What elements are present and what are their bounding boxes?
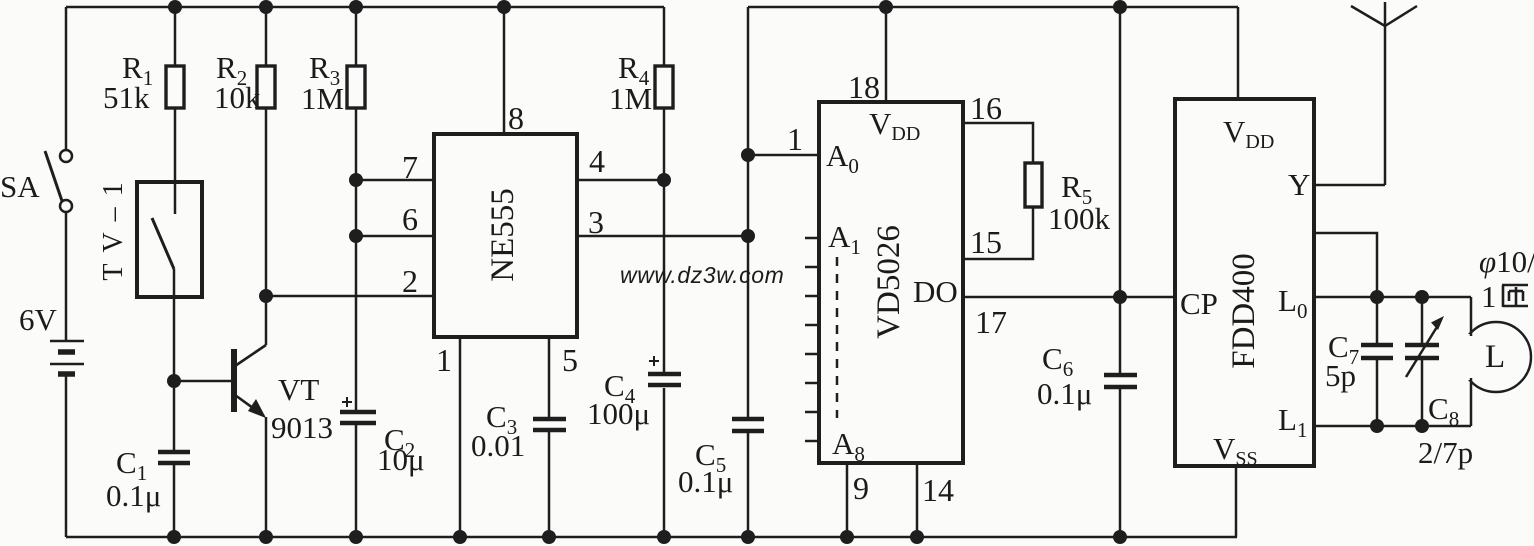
svg-text:100μ: 100μ <box>587 396 650 431</box>
svg-text:www.dz3w.com: www.dz3w.com <box>620 262 784 288</box>
node pin4 / R4 <box>657 173 671 187</box>
svg-text:FDD400: FDD400 <box>1226 253 1262 369</box>
node R3 / pin6 <box>349 229 363 243</box>
node L0 / C8 <box>1415 290 1429 304</box>
wire C5 column from top rail corner <box>747 7 750 417</box>
node R3 / pin7 <box>349 173 363 187</box>
svg-text:1M: 1M <box>301 81 344 116</box>
wire VSS to ground rail <box>1235 466 1238 537</box>
wire C6 column <box>1119 7 1122 373</box>
svg-text:DO: DO <box>913 274 958 309</box>
wire pin2 line (collector to NE555 pin 2) <box>266 295 434 298</box>
label VD5026 <box>871 225 907 339</box>
capacitor C7 <box>1361 297 1393 426</box>
node C5 / ground rail <box>741 530 755 544</box>
wire pin 6 <box>356 235 434 238</box>
svg-text:18: 18 <box>848 69 880 105</box>
svg-text:L: L <box>1485 339 1505 375</box>
phototransistor module TV-1 <box>137 182 202 297</box>
wire oscillator pin to C7 column <box>1314 233 1377 297</box>
wire pin 16 <box>963 123 1033 163</box>
svg-text:6V: 6V <box>19 302 58 337</box>
svg-text:17: 17 <box>975 304 1007 340</box>
svg-text:5p: 5p <box>1325 358 1356 393</box>
node pin3 / C5 column <box>741 229 755 243</box>
svg-text:1M: 1M <box>609 81 652 116</box>
transistor VT 9013 <box>234 296 266 537</box>
wire pin 15 <box>963 207 1033 259</box>
wire VDD pin to top rail <box>1237 7 1240 99</box>
wire L0 line <box>1314 296 1471 299</box>
svg-text:1: 1 <box>787 121 803 157</box>
resistor R4 <box>655 7 673 373</box>
wire Y to antenna <box>1314 184 1385 187</box>
resistor R3 <box>347 7 365 411</box>
wire L1 line <box>1314 425 1471 428</box>
svg-text:0.1μ: 0.1μ <box>106 478 161 513</box>
node pin9 / ground rail <box>840 530 854 544</box>
wire base of VT <box>174 380 231 383</box>
svg-text:16: 16 <box>970 90 1002 126</box>
capacitor C3 <box>533 419 566 537</box>
svg-text:0.1μ: 0.1μ <box>1037 376 1092 411</box>
svg-text:14: 14 <box>922 472 954 508</box>
node base junction <box>167 374 181 388</box>
wire top supply rail (left section) <box>66 6 664 9</box>
variable capacitor C8 <box>1405 297 1440 426</box>
wire pin 3 output <box>577 235 748 238</box>
svg-text:5: 5 <box>562 342 578 378</box>
node emitter / ground rail <box>259 530 273 544</box>
op IC NE555 <box>434 134 577 337</box>
wire pin 14 to ground <box>916 463 919 537</box>
svg-text:10k: 10k <box>214 80 261 115</box>
capacitor C6 <box>1104 375 1137 537</box>
wire pin 9 to ground <box>846 463 849 537</box>
resistor R2 <box>257 7 275 296</box>
encoder IC VD5026 <box>819 102 963 463</box>
svg-text:8: 8 <box>508 100 524 136</box>
node C6 / ground rail <box>1113 530 1127 544</box>
wire pin 1 to ground <box>459 337 462 537</box>
svg-text:CP: CP <box>1180 286 1218 321</box>
svg-text:10μ: 10μ <box>377 442 425 477</box>
wire top supply rail (right section) <box>748 6 1238 9</box>
wire bottom ground rail <box>66 536 1237 539</box>
capacitor C4 <box>648 356 681 537</box>
svg-text:2: 2 <box>402 263 418 299</box>
svg-text:C8: C8 <box>1428 391 1459 431</box>
wire pin 7 <box>356 179 434 182</box>
node top rail / R3 <box>349 0 363 14</box>
svg-text:9: 9 <box>853 470 869 506</box>
svg-text:3: 3 <box>588 204 604 240</box>
node top rail / R1 <box>168 0 182 14</box>
inductor L coil <box>1454 297 1531 426</box>
node top rail / R2 <box>259 0 273 14</box>
svg-text:VD5026: VD5026 <box>871 225 907 339</box>
svg-text:NE555: NE555 <box>485 188 521 282</box>
svg-text:6: 6 <box>402 201 418 237</box>
node pin8 / top rail <box>497 0 511 14</box>
node C1 / ground rail <box>167 530 181 544</box>
transmitter IC FDD400 <box>1175 99 1314 466</box>
wire pin 8 to top rail <box>503 7 506 134</box>
svg-text:15: 15 <box>970 224 1002 260</box>
node C6 / top rail <box>1113 0 1127 14</box>
capacitor C5 <box>732 419 764 537</box>
svg-text:4: 4 <box>589 143 605 179</box>
node L1 / C8 <box>1415 419 1429 433</box>
dashed line A1 to A8 <box>836 257 839 418</box>
svg-text:51k: 51k <box>103 80 150 115</box>
wire battery to ground rail <box>65 374 68 537</box>
node DO / C6 column <box>1113 290 1127 304</box>
antenna <box>1351 2 1417 185</box>
wire A0 pin 1 <box>748 154 819 157</box>
node collector junction <box>259 289 273 303</box>
node A0 junction <box>741 148 755 162</box>
battery 6V <box>50 341 84 374</box>
svg-text:2/7p: 2/7p <box>1418 435 1473 470</box>
svg-text:9013: 9013 <box>271 410 333 445</box>
label FDD400 <box>1226 253 1262 369</box>
pin stubs A1..A8 <box>805 238 819 441</box>
node pin14 / ground rail <box>910 530 924 544</box>
node L1 / C7 <box>1370 419 1384 433</box>
wire pin 4 to R4 <box>577 179 664 182</box>
node C3 / ground rail <box>542 530 556 544</box>
svg-text:0.1μ: 0.1μ <box>678 464 733 499</box>
resistor R5 <box>1025 163 1042 207</box>
label TV-1 <box>98 171 129 280</box>
wire DO output to CP <box>963 296 1175 299</box>
node C4 / ground rail <box>657 530 671 544</box>
wire switch to battery <box>65 211 68 341</box>
svg-text:7: 7 <box>402 149 418 185</box>
capacitor C2 <box>340 397 376 537</box>
node pin18 / top rail <box>879 0 893 14</box>
svg-text:100k: 100k <box>1048 201 1111 236</box>
capacitor C1 <box>158 452 190 537</box>
resistor R1 <box>166 7 184 182</box>
node L0 / C7 <box>1370 290 1384 304</box>
svg-text:TV–1: TV–1 <box>98 171 129 280</box>
svg-text:φ10/: φ10/ <box>1479 244 1534 279</box>
switch SA <box>45 150 72 212</box>
svg-text:1: 1 <box>1481 279 1497 314</box>
node pin1 / ground rail <box>453 530 467 544</box>
svg-text:1: 1 <box>436 342 452 378</box>
wire pin 18 to top rail <box>885 7 888 102</box>
wire TV-1 to C1 <box>173 297 176 450</box>
svg-text:VT: VT <box>278 372 319 407</box>
node C2 / ground rail <box>349 530 363 544</box>
svg-text:C6: C6 <box>1042 341 1073 381</box>
svg-text:SA: SA <box>0 169 40 204</box>
svg-text:Y: Y <box>1288 167 1310 202</box>
svg-text:0.01: 0.01 <box>471 428 525 463</box>
wire pin 5 to C3 <box>548 337 551 417</box>
label NE555 <box>485 188 521 282</box>
wire left rail top to switch <box>65 7 68 150</box>
